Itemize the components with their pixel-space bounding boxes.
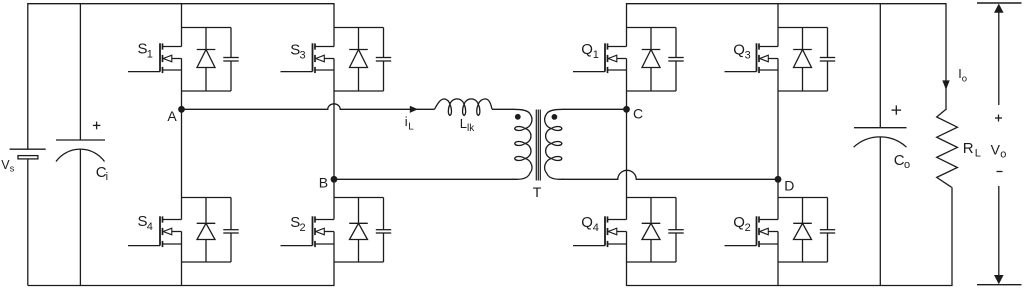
svg-text:2: 2 bbox=[300, 222, 306, 234]
wire: node B to transformer primary bottom bbox=[334, 178, 515, 180]
battery Vs bbox=[27, 159, 29, 286]
capacitor Co bbox=[879, 4, 881, 128]
svg-text:4: 4 bbox=[147, 221, 153, 233]
transistor S2 MOSFET bbox=[312, 216, 314, 245]
svg-text:L: L bbox=[408, 122, 414, 133]
node A bbox=[178, 106, 185, 113]
svg-text:R: R bbox=[963, 140, 974, 157]
transformer core bbox=[535, 110, 537, 181]
wire: S1 leg from top rail bbox=[181, 4, 183, 28]
svg-text:D: D bbox=[784, 177, 794, 193]
transistor Q3 MOSFET bbox=[756, 43, 758, 71]
plus sign of Co bbox=[892, 109, 902, 111]
svg-text:o: o bbox=[904, 159, 910, 171]
svg-text:1: 1 bbox=[593, 49, 599, 61]
Vo dimension terminator top bbox=[977, 2, 1022, 4]
svg-text:B: B bbox=[319, 175, 328, 191]
svg-text:o: o bbox=[962, 74, 967, 85]
antiparallel diode of S2 bbox=[358, 198, 360, 224]
svg-text:3: 3 bbox=[300, 50, 306, 62]
wire: S3/S2 leg through node B bbox=[333, 91, 335, 198]
svg-text:i: i bbox=[106, 171, 108, 183]
cell top/bottom rails of Q2 bbox=[778, 197, 828, 199]
snubber capacitor of S3 bbox=[383, 28, 385, 58]
wire: transformer secondary bottom to node D, hop over Q1/Q4 leg bbox=[562, 170, 778, 179]
transistor S1 MOSFET bbox=[159, 43, 161, 71]
svg-text:o: o bbox=[1000, 149, 1006, 161]
resistor RL bbox=[937, 109, 958, 188]
cell top/bottom rails of S1 bbox=[182, 27, 232, 29]
cell top/bottom rails of Q3 bbox=[778, 27, 828, 29]
svg-text:Q: Q bbox=[733, 214, 745, 231]
antiparallel diode of Q4 bbox=[650, 198, 652, 224]
minus sign of Vo bbox=[997, 171, 1003, 173]
node B bbox=[331, 176, 338, 183]
svg-text:4: 4 bbox=[593, 222, 599, 234]
svg-text:Q: Q bbox=[733, 42, 745, 59]
Vo dimension line with arrows bbox=[998, 10, 1000, 105]
wire: input top rail bbox=[28, 4, 334, 150]
wire: Q1/Q4 leg through node C bbox=[626, 91, 628, 198]
antiparallel diode of Q1 bbox=[650, 28, 652, 50]
snubber capacitor of Q2 bbox=[827, 198, 829, 230]
snubber capacitor of Q1 bbox=[675, 28, 677, 58]
plus sign of Vo bbox=[995, 117, 1002, 119]
transistor Q2 MOSFET bbox=[756, 216, 758, 245]
antiparallel diode of S4 bbox=[205, 198, 207, 224]
plus sign of Ci bbox=[93, 124, 101, 126]
arrow iL bbox=[410, 106, 418, 113]
wire: output top rail bbox=[627, 4, 947, 109]
svg-text:L: L bbox=[460, 116, 467, 131]
transformer T primary winding bbox=[513, 109, 532, 179]
antiparallel diode of S3 bbox=[358, 28, 360, 50]
svg-text:Q: Q bbox=[581, 41, 593, 58]
cell top/bottom rails of Q1 bbox=[627, 27, 677, 29]
snubber capacitor of S1 bbox=[230, 28, 232, 58]
antiparallel diode of Q3 bbox=[802, 28, 804, 50]
svg-text:V: V bbox=[991, 142, 1001, 158]
antiparallel diode of Q2 bbox=[802, 198, 804, 224]
wire: node A to inductor, hop over S3 leg bbox=[182, 104, 435, 110]
svg-text:Q: Q bbox=[581, 214, 593, 231]
cell top/bottom rails of Q4 bbox=[627, 197, 677, 199]
node C bbox=[623, 106, 630, 113]
svg-text:3: 3 bbox=[745, 50, 751, 62]
svg-text:A: A bbox=[167, 108, 177, 124]
snubber capacitor of Q3 bbox=[827, 28, 829, 58]
transistor S4 MOSFET bbox=[159, 216, 161, 245]
svg-text:1: 1 bbox=[147, 49, 153, 61]
svg-text:2: 2 bbox=[745, 222, 751, 234]
transistor S3 MOSFET bbox=[312, 43, 314, 71]
wire: output bottom rail bbox=[627, 187, 953, 285]
snubber capacitor of S4 bbox=[230, 198, 232, 230]
snubber capacitor of S2 bbox=[383, 198, 385, 230]
wire: Q3/Q2 leg through node D bbox=[777, 91, 779, 198]
svg-text:T: T bbox=[533, 184, 542, 200]
capacitor Ci bbox=[79, 4, 81, 140]
svg-text:C: C bbox=[633, 106, 643, 122]
svg-text:s: s bbox=[10, 164, 15, 175]
antiparallel diode of S1 bbox=[205, 28, 207, 50]
wire: S1/S4 leg through node A bbox=[181, 91, 183, 198]
cell top/bottom rails of S3 bbox=[334, 27, 384, 29]
wire: input bottom rail bbox=[28, 262, 334, 286]
cell top/bottom rails of S4 bbox=[182, 197, 232, 199]
cell top/bottom rails of S2 bbox=[334, 197, 384, 199]
transformer primary dot bbox=[515, 114, 521, 120]
node D bbox=[775, 176, 782, 183]
transistor Q4 MOSFET bbox=[604, 216, 606, 245]
inductor Llk bbox=[435, 99, 493, 116]
transformer secondary dot bbox=[552, 114, 558, 120]
svg-text:lk: lk bbox=[467, 123, 475, 134]
transistor Q1 MOSFET bbox=[604, 43, 606, 71]
snubber capacitor of Q4 bbox=[675, 198, 677, 230]
wire: inductor to transformer primary bbox=[492, 108, 514, 110]
transformer T secondary winding bbox=[545, 109, 564, 179]
arrow Io bbox=[942, 80, 949, 90]
Vo dimension terminator bottom bbox=[977, 284, 1022, 286]
svg-text:L: L bbox=[975, 148, 981, 160]
wire: transformer secondary top to node C bbox=[563, 108, 627, 110]
